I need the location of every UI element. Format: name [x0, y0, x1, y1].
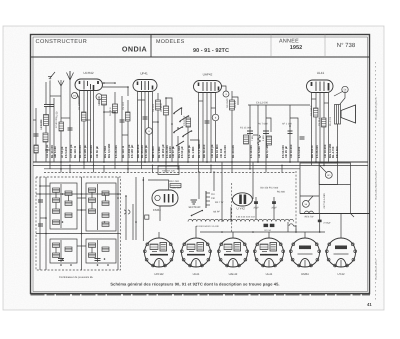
wire UAF42 pin 2 — [202, 93, 204, 163]
resistor R9 — [170, 184, 181, 188]
wire box internal bus2 — [36, 233, 121, 235]
wire UCH42 pin 3 — [87, 91, 89, 163]
wire HT drop 1 — [249, 105, 251, 162]
junction dots on bus — [60, 161, 338, 163]
power inner sub-box — [319, 163, 337, 185]
capacitor bottom row 2 — [95, 259, 101, 261]
coil block B — [86, 183, 116, 231]
border frame — [31, 35, 370, 294]
resistor R18 — [34, 145, 38, 153]
wire dashed bus — [44, 172, 296, 174]
resistor R7 — [186, 118, 191, 127]
wire — [287, 222, 289, 232]
wire UCH42 pin 2 — [83, 91, 85, 163]
left column extras — [33, 108, 36, 162]
coil block A — [50, 183, 77, 229]
node circled G UF41 — [146, 128, 153, 135]
node circled number UL41 — [342, 86, 348, 92]
header divider 2 — [270, 35, 272, 58]
wire — [45, 142, 47, 162]
right margin rotated text — [375, 96, 378, 280]
wire — [230, 207, 232, 222]
resistor R2 — [43, 133, 48, 142]
resistor R1 — [44, 115, 49, 126]
resistor box on bus — [158, 166, 179, 175]
wire — [221, 162, 223, 222]
wire — [114, 113, 116, 162]
wire power down — [319, 214, 321, 233]
wire power vertical — [318, 163, 320, 214]
bus ticks — [50, 162, 324, 173]
box interior extras — [40, 186, 86, 246]
choke coil chain — [188, 219, 294, 221]
wire — [103, 105, 105, 162]
capacitor C2 — [120, 120, 125, 122]
tube EM34 — [152, 190, 178, 212]
wire box internal bus — [36, 193, 121, 195]
wire grid cap right — [98, 100, 100, 104]
wire — [135, 177, 137, 240]
resistor R13 — [126, 112, 131, 121]
wire — [127, 100, 129, 162]
header separator — [31, 56, 371, 58]
wire pot area — [198, 171, 200, 199]
wire power top link — [318, 162, 320, 163]
wire UL41 pin 5 — [328, 93, 330, 163]
wire circled node link — [222, 86, 227, 91]
tube base UL41 — [253, 238, 284, 276]
box junction dots — [39, 179, 144, 260]
switch S1 — [173, 107, 182, 115]
wire UCH42 pin 1 — [79, 91, 81, 163]
wire EM34 top — [148, 180, 169, 190]
extra junction dots bus2 — [60, 165, 325, 170]
node circled number near UAF42 — [223, 91, 229, 97]
page edge — [3, 26, 384, 310]
capacitor C8 — [68, 128, 73, 130]
coil block D — [86, 239, 116, 263]
mains coil — [305, 211, 314, 213]
dots on mid bus — [221, 231, 320, 233]
wire UL41 pin 1 — [311, 93, 313, 163]
wire UL41 to circled node — [334, 92, 343, 97]
tube UL41 — [307, 71, 334, 93]
wire dashed right section — [295, 171, 297, 232]
capacitor electrolytic C7 — [271, 201, 277, 209]
capacitor C10 — [205, 121, 210, 123]
wire — [215, 121, 217, 162]
tube UCH42 — [75, 71, 103, 91]
wire — [157, 93, 159, 100]
wire dashed divider — [231, 183, 233, 232]
capacitor C12 — [300, 137, 305, 139]
wire — [177, 136, 179, 162]
antenna coupling cap C1 — [44, 80, 64, 107]
mains connector SECTEUR — [189, 200, 201, 209]
wire antenna down — [45, 82, 47, 104]
extra band labels 2 — [64, 143, 335, 158]
capacitor box left 2 — [38, 224, 43, 226]
resistor R14 — [314, 108, 319, 117]
tube base UF41 — [180, 238, 211, 276]
base feed wires — [159, 214, 341, 239]
frame bottom emphasis — [31, 294, 371, 296]
wire link — [103, 87, 129, 96]
resistor R3 — [102, 95, 107, 105]
wire power horizontal — [300, 195, 319, 197]
wire UAF42 pin 4 — [210, 93, 212, 163]
wire bus 3 — [44, 168, 300, 170]
resistor R11 — [59, 122, 64, 131]
upper component labels — [40, 96, 321, 128]
switch S3 — [173, 126, 183, 133]
switch S4 — [182, 130, 192, 137]
wire link UCH42-UF41 — [103, 82, 116, 84]
wire — [157, 110, 159, 162]
capacitor bottom row 1 — [58, 259, 64, 261]
wire UAF42 pin 5 — [215, 93, 217, 115]
connector jogs — [45, 96, 329, 150]
capacitor dark pair — [264, 224, 275, 232]
wire transformer down — [337, 124, 339, 162]
resistor R16 — [244, 135, 249, 144]
wire UF41 pin 5 — [152, 92, 154, 163]
switch diagonal extra — [176, 141, 184, 146]
wire — [231, 91, 233, 100]
wire choke right — [294, 226, 297, 232]
speaker HP — [341, 105, 356, 123]
wire UF41 pin 1 — [137, 92, 139, 163]
wire box vertical2 — [45, 177, 47, 270]
resistor R5 — [156, 100, 161, 110]
wire main bus — [33, 161, 368, 163]
capacitor box left 1 — [38, 200, 43, 202]
power section box — [300, 163, 351, 214]
wire — [289, 105, 291, 162]
resistor R4 — [113, 104, 118, 113]
border frame inner — [33, 37, 368, 292]
wire UCH42 pin 5 — [93, 91, 95, 163]
wire UAF42 pin 1 — [198, 93, 200, 163]
wire below circled G — [148, 134, 150, 162]
wire — [121, 96, 123, 162]
wire mid bus — [200, 231, 325, 233]
wire — [231, 110, 233, 162]
wire — [45, 126, 47, 134]
wire UF41 pin 2 — [141, 92, 143, 163]
capacitor C9 — [143, 117, 148, 119]
node circled G UAF42 — [212, 114, 219, 121]
voltage selector — [206, 191, 224, 214]
value labels band — [45, 143, 332, 158]
capacitor C11 — [288, 131, 293, 134]
switch dots extra — [103, 82, 291, 129]
tube base UCH42 — [143, 238, 174, 276]
power inner divider — [319, 184, 350, 186]
wire power tick — [351, 214, 355, 218]
capacitor C4 — [263, 131, 269, 134]
resistor R15 — [322, 118, 327, 127]
wire HT drop 2 — [257, 105, 259, 162]
wire UAF42 pin 3 — [206, 93, 208, 163]
wire — [45, 107, 47, 115]
small resistor near base — [145, 215, 149, 219]
wire — [165, 115, 167, 162]
header divider 3 — [324, 35, 326, 58]
resistor R17 — [267, 136, 272, 145]
capacitor electrolytic C6 — [253, 201, 259, 209]
resistor R12 — [82, 112, 87, 121]
wire bus 2 — [33, 164, 368, 166]
extra band labels — [53, 145, 339, 158]
wire — [132, 204, 134, 240]
node grid cap UCH42 right — [96, 94, 102, 100]
wire right of box — [125, 196, 127, 240]
right margin text — [375, 62, 377, 300]
wire speaker — [340, 92, 345, 105]
wire — [297, 126, 299, 162]
tube UAF42 — [194, 73, 222, 93]
scan grain — [3, 26, 384, 310]
wire UL41 pin 3 — [319, 93, 321, 163]
wire — [49, 81, 51, 162]
wire UF41 pin 4 — [148, 92, 150, 128]
wire box vertical4 — [117, 177, 119, 270]
rectifier UY42 — [232, 193, 252, 211]
wire HT drop 3 — [265, 105, 267, 162]
junction dots in box — [39, 193, 119, 266]
wire — [252, 162, 254, 199]
wire UL41 pin 4 — [323, 93, 325, 163]
wire — [60, 86, 62, 162]
combinateur dashed box — [36, 177, 121, 270]
capacitor blob — [318, 220, 332, 225]
wire — [165, 98, 167, 106]
antenna — [67, 71, 74, 80]
wire UL41 pin 2 — [315, 93, 317, 163]
wire to tube base — [142, 177, 144, 241]
resistor R6 — [164, 106, 169, 115]
node grid cap UCH42 left — [72, 93, 78, 99]
switch S2 — [179, 115, 189, 122]
wire — [171, 113, 173, 162]
tube UF41 — [133, 72, 157, 92]
capacitor C13 — [34, 134, 39, 136]
resistor R8 — [230, 100, 235, 110]
wire HT line — [248, 104, 310, 106]
coil block C — [50, 239, 77, 263]
wire UF41 pin 3 — [144, 92, 146, 163]
wire box vertical1 — [39, 177, 41, 270]
wire — [187, 127, 189, 162]
wire box vertical3 — [81, 177, 83, 270]
zigzag resistor — [258, 135, 261, 145]
node circled SE — [303, 196, 314, 207]
node circled BO — [320, 166, 332, 179]
tube base EM34 — [289, 238, 320, 276]
output transformer T1 — [335, 105, 341, 125]
tube base UAF42 — [217, 238, 248, 276]
wire UCH42 pin 4 — [90, 91, 92, 163]
single coil right — [289, 224, 293, 226]
base key lines — [159, 260, 341, 267]
wire extra a — [53, 98, 55, 162]
switch INT — [191, 210, 203, 217]
terre symbol — [48, 72, 55, 80]
wire — [69, 80, 71, 162]
wire — [213, 171, 215, 191]
wire grid cap left — [77, 93, 80, 105]
power bus bottom — [300, 213, 370, 215]
header divider 1 — [150, 35, 152, 58]
wire cap drops — [256, 197, 274, 219]
capacitor C3 — [247, 131, 253, 134]
coil right of box — [124, 210, 130, 214]
wire — [114, 92, 116, 104]
tube base UY42 — [325, 238, 356, 276]
wire EM34 bottom — [159, 206, 161, 221]
